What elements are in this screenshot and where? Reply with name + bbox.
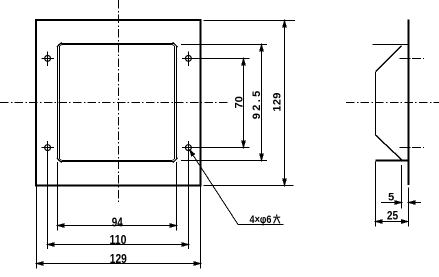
extension line right of plate [408,188,410,227]
dimension 110 line [48,244,189,246]
side view centerline main [346,102,439,104]
dimension 25 line [376,221,409,223]
side view lower diagonal [376,135,402,159]
extension line inner-right bottom [176,162,178,231]
extension line inner-top right [181,44,267,46]
dimension 94 line [58,225,177,227]
leader text kanji hole [273,214,280,223]
extension line inner-bottom right [181,160,267,162]
svg-text:5: 5 [388,191,394,203]
hole bottom-left circle [45,145,51,151]
dimension 92.5 line [261,45,263,161]
side view hole centerline bottom [400,147,425,149]
side view left wall [375,71,377,135]
corner tick top-right [173,42,178,47]
horizontal centerline front view [0,102,228,104]
svg-text:94: 94 [112,214,124,229]
svg-text:70: 70 [233,96,245,108]
hole bottom-right circle [186,145,192,151]
corner tick bottom-left [57,158,62,163]
extension line inner-left bottom [57,162,59,231]
side view hole centerline top [400,58,425,60]
hole top-left crosshair [42,58,55,60]
svg-text:92.5: 92.5 [251,91,263,120]
side view pan bottom [376,160,408,162]
extension line outer-bottom right [204,185,294,187]
dimension 129 right line [284,21,286,186]
hole top-right circle [186,56,192,62]
panel cutout outer line [58,44,177,162]
panel cutout inner line [60,45,175,161]
hole top-right crosshair [182,58,250,60]
side view plate [408,20,410,186]
corner tick bottom-right [173,158,178,163]
extension line outer-right bottom [200,186,202,269]
hole top-left circle [45,56,51,62]
vertical centerline front view [118,0,120,204]
leader line to hole [190,151,238,225]
corner tick top-left [57,42,62,47]
outer plate outline [36,20,201,186]
hole bottom-left crosshair [42,147,55,149]
dimension 70 line [243,59,245,148]
svg-text:129: 129 [110,251,127,266]
svg-text:129: 129 [272,93,284,112]
extension line 25-left [375,162,377,227]
side view upper diagonal [376,46,402,71]
dimension 5 line [381,202,402,204]
extension line outer-top right [204,20,296,22]
svg-text:110: 110 [110,232,127,247]
extension line 5-left [401,165,403,209]
side view top lip [373,44,408,46]
dimension 129 bottom line [37,263,201,265]
hole bottom-right crosshair [182,147,250,149]
svg-text:4×φ6: 4×φ6 [250,214,272,226]
svg-text:25: 25 [387,210,399,222]
extension line outer-left bottom [36,186,38,269]
